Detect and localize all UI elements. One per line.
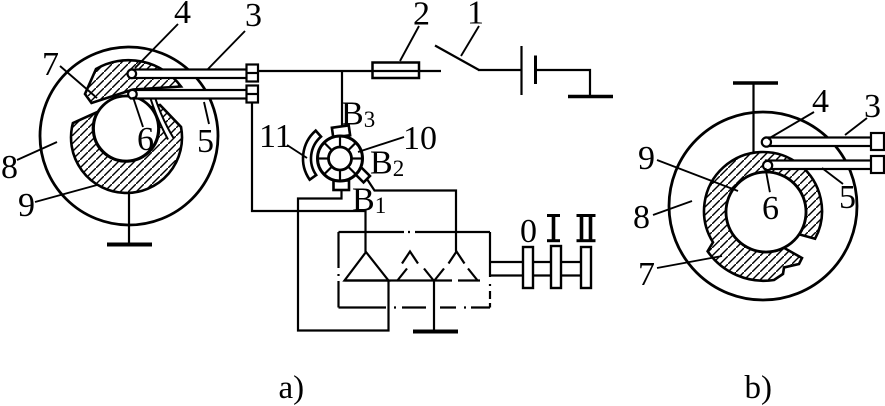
svg-text:6: 6	[762, 190, 779, 227]
leader line label 7 (right)	[657, 256, 722, 268]
svg-text:8: 8	[1, 149, 18, 186]
svg-text:1: 1	[467, 0, 484, 32]
svg-text:3: 3	[245, 0, 262, 34]
svg-text:7: 7	[638, 256, 655, 293]
connector top tab B3	[332, 125, 350, 137]
leader line label 10	[358, 137, 404, 152]
leader line label 9 (right)	[657, 160, 738, 191]
leader line label 1	[461, 26, 479, 56]
leader line label 3 (right)	[845, 118, 867, 135]
label I (drawn)	[547, 214, 560, 242]
ground (battery)	[568, 95, 613, 99]
contact bar 3 (right upper)	[766, 138, 872, 147]
leader line label 8	[17, 142, 57, 160]
leader line label 9	[35, 185, 97, 202]
contact triangle position 0 (solid)	[345, 252, 389, 281]
switch box dash-dot frame top	[339, 231, 491, 233]
leader line label 2	[400, 26, 419, 61]
pivot pin upper (4)	[128, 70, 137, 79]
svg-text:4: 4	[812, 83, 829, 120]
svg-text:a): a)	[279, 370, 305, 406]
pivot pin right lower	[763, 161, 772, 170]
position bar I	[551, 246, 561, 288]
switch box frame left	[337, 232, 339, 308]
pivot pin right upper	[762, 138, 771, 147]
cam C-ring (9) hatched	[71, 105, 182, 193]
contact chevron position I	[402, 252, 418, 264]
connector body outer circle (10)	[318, 136, 363, 181]
terminal cap upper	[247, 65, 259, 82]
wire from upper terminal to switch	[258, 70, 441, 72]
leader line label 11	[287, 145, 307, 158]
mount T bar	[733, 81, 778, 85]
housing outer circle (8)	[669, 112, 857, 300]
svg-text:10: 10	[403, 120, 437, 157]
terminal cap right lower	[871, 156, 884, 173]
svg-text:9: 9	[638, 140, 655, 177]
svg-text:b): b)	[745, 370, 773, 406]
ground (left assembly)	[107, 243, 152, 247]
wire battery to ground	[536, 70, 591, 96]
leader line label 8 (right)	[653, 201, 692, 215]
connector spokes	[318, 136, 363, 181]
wire from lower terminal down and to switch box (left triangle)	[252, 103, 366, 252]
connector diagonal tab B2	[355, 168, 370, 183]
mount stem	[752, 83, 754, 152]
connector bottom tab B1	[334, 181, 350, 191]
leader line label 5 (right)	[822, 168, 843, 184]
wire switch to battery	[478, 69, 521, 71]
svg-text:2: 2	[413, 0, 430, 33]
connector inner circle	[329, 147, 352, 170]
position linkage wires	[490, 261, 581, 263]
terminal cap right upper	[871, 133, 884, 150]
label II (drawn)	[577, 214, 596, 242]
svg-text:4: 4	[174, 0, 191, 31]
svg-text:3: 3	[864, 88, 881, 125]
leader line label 3	[208, 31, 245, 69]
socket arc 11	[303, 131, 321, 180]
cam ring (9/7) hatched	[704, 152, 822, 281]
svg-text:0: 0	[520, 213, 537, 250]
switch box frame right	[489, 232, 491, 308]
pivot pin lower (6)	[128, 90, 137, 99]
terminal cap lower	[247, 86, 259, 103]
position bar 0	[523, 247, 533, 288]
svg-text:5: 5	[839, 179, 856, 216]
leader line label 6	[133, 97, 143, 127]
leader line label 6 (right)	[765, 168, 770, 192]
leader line label 4 (right)	[768, 112, 814, 139]
switch 1 blade	[435, 46, 479, 71]
leader line label 4	[135, 24, 178, 68]
contact bar 3 (upper) white body	[131, 70, 247, 79]
contact chevron position II	[449, 252, 465, 264]
contact bar 5 (lower) white body	[131, 90, 247, 99]
svg-text:9: 9	[18, 187, 35, 224]
svg-text:5: 5	[197, 123, 214, 160]
svg-text:11: 11	[259, 118, 292, 155]
leader line label 7	[60, 66, 97, 98]
wire : ground lead from cam ring bottom	[128, 192, 130, 243]
position bar II	[581, 247, 591, 288]
ground (switch box)	[413, 330, 458, 334]
battery long plate	[520, 46, 522, 95]
switch box frame bottom	[339, 306, 491, 308]
breaker lever wedge (7/4) hatched	[85, 60, 181, 103]
wire B1	[298, 190, 389, 331]
contact base line	[345, 279, 481, 281]
leader line label 5	[204, 102, 209, 124]
svg-text:8: 8	[633, 199, 650, 236]
shaft bore circle (6 area)	[94, 96, 159, 161]
contact bar 5 (right lower)	[766, 161, 872, 170]
breaker housing outer circle (8)	[40, 47, 218, 225]
contact stubs	[397, 269, 478, 282]
svg-text:6: 6	[137, 121, 154, 158]
separation channel between lever tail and cam ring end	[153, 98, 171, 139]
wire B2	[365, 176, 456, 252]
wire to mid ground	[433, 281, 435, 331]
battery short plate	[534, 56, 537, 85]
fuse 2	[373, 63, 420, 79]
wire B3 vertical	[341, 71, 343, 127]
shaft bore circle (6 area)	[726, 172, 806, 252]
svg-text:7: 7	[42, 46, 59, 83]
